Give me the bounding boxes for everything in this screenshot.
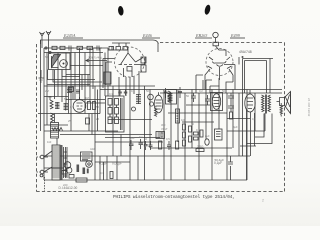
- svg-text:220: 220: [63, 183, 68, 187]
- wire corners below V3: [196, 75, 233, 93]
- tube V1 shield box: [49, 53, 71, 70]
- PSU cluster small boxes: [194, 130, 204, 140]
- antenna lead A2: [48, 44, 50, 53]
- horizontal extra y99: [66, 99, 105, 101]
- coil L2: [51, 113, 54, 122]
- punch hole left: [117, 6, 124, 16]
- wire rail y131 right: [227, 130, 265, 132]
- PSU cluster resistors column: [183, 124, 192, 146]
- tube V3 top cap circle: [213, 32, 218, 37]
- wire mains rail: [44, 167, 64, 169]
- fuse box F1: [62, 171, 67, 175]
- wire vertical v79: [79, 48, 81, 99]
- wire rail y120: [108, 119, 152, 121]
- caption: [113, 195, 253, 200]
- choke L8 winding: [51, 123, 59, 139]
- coupling cap box2: [141, 65, 146, 72]
- antenna A2: [46, 31, 51, 44]
- svg-text:2M: 2M: [45, 89, 49, 93]
- resistor R14: [110, 172, 113, 179]
- tuning capacitor C1 vane: [52, 55, 61, 68]
- wire vertical v178: [177, 90, 179, 143]
- vertical extend v171: [170, 148, 172, 180]
- wire h65: [70, 65, 103, 67]
- svg-text:0,1: 0,1: [109, 92, 113, 96]
- wire vertical v47: [46, 53, 48, 126]
- capacitor C13: [167, 141, 171, 150]
- zigzag resistor R22: [280, 103, 283, 117]
- wire v121b: [120, 135, 122, 157]
- wire V3 right drop: [206, 57, 239, 80]
- switch contact dot2: [49, 51, 51, 53]
- wire v100b: [99, 156, 101, 180]
- wire v92b: [91, 114, 93, 135]
- wire vertical v265: [264, 113, 266, 131]
- tube V1 dot: [63, 63, 65, 65]
- wire vertical v95: [94, 86, 96, 162]
- wire vertical v206: [205, 80, 207, 139]
- label tube E245A: [63, 33, 241, 38]
- svg-text:4µF: 4µF: [233, 125, 238, 129]
- wire rail y156: [44, 155, 250, 157]
- wire vertical v144: [144, 86, 146, 156]
- rectifier V7: [64, 162, 71, 169]
- wire vertical v66: [65, 53, 67, 104]
- tube V4: [73, 100, 86, 113]
- wire vertical v71: [70, 48, 72, 131]
- terminal node: [242, 56, 244, 58]
- RF shield box top: [41, 40, 159, 44]
- wire rail y180: [44, 179, 247, 181]
- resistor R12: [159, 141, 162, 149]
- wire vertical v219: [218, 78, 220, 129]
- component row C2: [66, 46, 74, 51]
- cap cluster D1: [129, 140, 134, 150]
- antenna lead A1: [41, 44, 43, 48]
- wire rail y86: [44, 85, 155, 87]
- coil L7b zigzag: [168, 91, 171, 103]
- label underline E446: [142, 37, 160, 39]
- wire rail y89.5: [100, 89, 282, 91]
- micro labels sprinkle: [45, 55, 256, 187]
- cap C21: [178, 87, 182, 98]
- resistor R6: [93, 102, 96, 110]
- wire v107b: [106, 156, 108, 180]
- wire top row: [44, 47, 108, 49]
- output transformer T2 secondary: [268, 95, 271, 112]
- vertical extend v212: [211, 156, 213, 180]
- coupling caps right of V2: [141, 57, 146, 63]
- choke bottom lead: [56, 138, 58, 145]
- wire vertical v119: [118, 77, 120, 96]
- tube V9 grid: [214, 98, 220, 107]
- wire vertical v100: [99, 48, 101, 114]
- switch contact dot1: [45, 47, 47, 49]
- wire rail y137.5: [105, 137, 160, 139]
- cap pair C19: [124, 90, 128, 96]
- wire v117b: [116, 156, 118, 180]
- wire h122: [182, 121, 214, 123]
- chassis dashed border right: [284, 43, 286, 192]
- vertical extra v68b: [68, 86, 70, 114]
- svg-text:VOLT: VOLT: [161, 127, 168, 131]
- wire vertical v164: [163, 90, 165, 181]
- mains cord dashed: [44, 177, 46, 191]
- annotation wave arrow: [86, 59, 107, 62]
- output transformer T2 core: [266, 95, 267, 114]
- tube V1: [60, 60, 68, 68]
- vertical label column: [161, 123, 168, 139]
- unit box 44A: [81, 152, 93, 161]
- svg-text:300: 300: [161, 123, 166, 127]
- tall resistor R18: [176, 109, 180, 123]
- cap C20: [164, 88, 168, 98]
- wire v82: [81, 75, 83, 91]
- resistor R15: [196, 149, 204, 152]
- tube V3 envelope: [206, 49, 233, 76]
- tuning capacitor C1 frame: [52, 56, 59, 68]
- wire h105: [186, 104, 210, 106]
- svg-text:2µF: 2µF: [130, 136, 135, 140]
- wire vertical v44: [43, 48, 45, 180]
- cap row C17: [205, 95, 210, 105]
- wire rail y113b: [168, 112, 227, 114]
- power transformer T3 primary: [52, 145, 60, 180]
- wire rail y131: [44, 130, 118, 132]
- tube V2 screen: [127, 67, 132, 72]
- tube V3 cap lead box: [213, 42, 219, 46]
- svg-text:0,1: 0,1: [196, 128, 200, 132]
- wire vertical v139: [138, 71, 140, 94]
- power transformer T3 secondary: [64, 147, 68, 178]
- wire vertical v239: [238, 93, 240, 156]
- wire v95 extend: [94, 162, 96, 180]
- horizontal extra y96: [44, 96, 68, 98]
- tube V5 grid: [156, 92, 162, 109]
- punch hole right: [204, 4, 212, 15]
- tube V6 electrodes: [247, 90, 253, 109]
- tube V9: [212, 94, 220, 110]
- antenna A1: [40, 32, 45, 44]
- wire v103b: [103, 162, 105, 180]
- chassis dashed border top: [160, 42, 285, 44]
- svg-text:0,5: 0,5: [131, 89, 135, 93]
- svg-text:70: 70: [191, 122, 194, 126]
- svg-text:2,5Ω: 2,5Ω: [197, 145, 204, 149]
- dark resistor R21: [87, 169, 89, 174]
- cap row C16: [191, 93, 196, 102]
- svg-text:44A: 44A: [90, 147, 95, 151]
- hatch patch H2: [76, 90, 80, 93]
- capacitor C14: [228, 156, 233, 180]
- wire vertical v85: [84, 53, 86, 114]
- vertical extra v97b: [97, 90, 99, 132]
- terminal P3: [40, 174, 43, 177]
- wire bus y48 right: [243, 59, 274, 96]
- horizontal extra y103: [85, 102, 105, 104]
- coil L7 frame: [166, 90, 177, 105]
- tube V3 leads: [205, 65, 235, 90]
- dark resistor R19: [77, 165, 80, 173]
- electrolytic C15: [205, 139, 209, 145]
- dark resistor R20: [83, 168, 86, 175]
- svg-text:0,1: 0,1: [48, 95, 52, 99]
- wire vertical v233: [232, 90, 234, 149]
- tube V4 electrodes: [77, 97, 83, 109]
- wire rail y148: [150, 147, 232, 149]
- tube V2 grid cap components: [108, 43, 130, 50]
- cap pair C18: [118, 90, 122, 96]
- bypass cap C22: [86, 118, 90, 124]
- hatch patch H1: [67, 88, 72, 93]
- grid resistor R7: [104, 72, 111, 84]
- junction box J1: [69, 87, 74, 92]
- speaker lead: [277, 92, 291, 114]
- trimmer circle: [149, 102, 153, 106]
- speaker LS: [280, 92, 291, 114]
- vertical extend v199: [198, 148, 200, 180]
- wire v138b: [137, 156, 139, 180]
- tube V2 anode: [121, 47, 136, 65]
- wire rail y162: [95, 161, 130, 163]
- svg-text:0,2: 0,2: [199, 89, 203, 93]
- tube V5: [154, 95, 163, 113]
- coil L3 hatch: [55, 102, 60, 109]
- svg-text:49A/748: 49A/748: [239, 50, 252, 54]
- wire anode loop: [245, 61, 267, 94]
- ground: [39, 70, 44, 82]
- svg-text:2: 2: [262, 199, 264, 203]
- IF can T1: [106, 96, 125, 132]
- wire v88: [87, 75, 89, 87]
- mains switch S1: [44, 151, 52, 172]
- wire vertical v227: [226, 93, 228, 180]
- capacitor stack C11: [228, 102, 234, 112]
- wire rail y135: [60, 134, 152, 136]
- wire v144 extend: [144, 156, 146, 180]
- svg-text:D.I.44A12-00: D.I.44A12-00: [59, 186, 78, 190]
- mains stub dashed P2: [37, 171, 41, 173]
- cap cluster D2: [139, 139, 144, 149]
- vertical extend v185: [184, 156, 186, 180]
- svg-text:100: 100: [181, 118, 186, 122]
- coil L4 hatch: [64, 103, 69, 111]
- label underline E499: [230, 37, 245, 39]
- box unit B2: [215, 129, 223, 140]
- wire vertical v90: [89, 48, 91, 101]
- wire vertical v171: [170, 93, 172, 148]
- svg-text:50: 50: [186, 94, 189, 98]
- power transformer T3 core: [61, 145, 62, 180]
- zigzag resistor R17: [155, 106, 158, 116]
- svg-text:E446: E446: [142, 33, 153, 38]
- boxed label plate: [76, 178, 87, 182]
- mains terminal P2: [40, 170, 44, 174]
- svg-text:25: 25: [68, 119, 71, 123]
- component row R3: [77, 46, 83, 49]
- mains terminal P1: [40, 155, 44, 159]
- tube V2 grid: [119, 64, 138, 66]
- wire vertical v130: [129, 77, 131, 180]
- wire vertical v126: [125, 77, 127, 96]
- component row R2: [60, 46, 65, 49]
- capacitor stack C10: [228, 93, 234, 102]
- component row R4: [87, 46, 93, 49]
- fuse box F2: [69, 175, 74, 179]
- component row C3: [94, 46, 102, 51]
- component row R1: [52, 46, 57, 49]
- svg-text:0,5: 0,5: [166, 137, 170, 141]
- wire v105: [104, 53, 106, 97]
- resistor R10: [230, 112, 233, 119]
- wire vertical v108: [107, 48, 109, 96]
- svg-text:E499: E499: [230, 33, 241, 38]
- output transformer T2 primary: [262, 95, 265, 112]
- svg-text:0,5: 0,5: [70, 105, 74, 109]
- tube V3 anode: [213, 61, 227, 63]
- shield box left edge: [40, 40, 42, 131]
- AF unit box B3: [156, 132, 165, 139]
- wire vertical v255: [254, 93, 256, 131]
- wire vertical v199: [198, 93, 200, 148]
- svg-text:50: 50: [222, 89, 225, 93]
- svg-text:E245A: E245A: [63, 33, 76, 38]
- svg-text:50: 50: [45, 55, 48, 59]
- coil L1: [50, 96, 53, 109]
- svg-text:50: 50: [146, 89, 149, 93]
- svg-text:8µF: 8µF: [205, 134, 210, 138]
- wire rail y93: [160, 92, 282, 94]
- coil L7: [168, 93, 173, 102]
- label underline EB263: [195, 37, 212, 39]
- wire v89b: [88, 114, 90, 132]
- wire corners left of V2: [103, 59, 115, 89]
- tube V6: [245, 94, 255, 112]
- svg-text:0,1: 0,1: [252, 117, 256, 121]
- wire right drops: [240, 95, 272, 180]
- coil L6: [136, 94, 141, 104]
- wire vertical v192: [191, 90, 193, 149]
- wire vertical v58: [57, 53, 59, 97]
- tube V3 grid lead: [216, 38, 227, 56]
- wire vertical v54: [54, 70, 56, 99]
- svg-text:0,1: 0,1: [139, 135, 143, 139]
- svg-text:50: 50: [64, 97, 67, 101]
- capacitor group C12: [149, 141, 153, 150]
- svg-text:24 448 19042: 24 448 19042: [307, 98, 311, 117]
- wire vertical v185: [184, 93, 186, 156]
- tube V9 shield: [211, 93, 223, 111]
- chassis dashed border bottom: [37, 191, 285, 193]
- circle gadget S2: [86, 161, 93, 168]
- wire vertical v150: [149, 90, 151, 149]
- wire vertical v75: [74, 53, 76, 100]
- svg-text:50,4µF: 50,4µF: [215, 158, 225, 162]
- svg-text:0,1: 0,1: [163, 88, 167, 92]
- chassis dashed border left: [36, 44, 38, 192]
- wire corners below V1: [48, 70, 103, 85]
- wire rail y125: [44, 124, 68, 126]
- trimmer T4: [132, 107, 136, 111]
- svg-text:50: 50: [144, 137, 147, 141]
- tube V3 diode plates: [208, 57, 232, 69]
- resistor R13: [176, 141, 179, 149]
- wire vertical v62: [61, 70, 63, 103]
- wire rail y119 right: [227, 118, 250, 120]
- svg-text:110: 110: [47, 140, 52, 144]
- wire rail y142: [95, 141, 163, 143]
- resistor R5: [88, 102, 91, 110]
- wire vertical v158: [157, 43, 159, 52]
- choke top lead: [54, 114, 56, 123]
- tube V2 cathode: [124, 57, 146, 77]
- tube V3 cathode: [217, 65, 224, 81]
- socket circle: [148, 94, 154, 100]
- wire rail y113.5: [38, 113, 100, 115]
- vertical extra v73b: [72, 86, 74, 99]
- tube V2 envelope: [115, 47, 145, 77]
- cap cluster D3: [144, 141, 148, 150]
- coil L5 horizontal: [52, 128, 63, 131]
- wire v93: [92, 48, 94, 89]
- wire vertical v113: [112, 86, 114, 156]
- wire h74: [66, 74, 90, 76]
- svg-text:EB263: EB263: [195, 33, 207, 38]
- wire vertical v134: [133, 77, 135, 94]
- rectifier V8: [66, 167, 72, 173]
- wire vertical v247: [246, 90, 248, 181]
- wire vertical v212: [211, 90, 213, 157]
- wire second row: [44, 52, 103, 54]
- gadget hook: [88, 163, 91, 166]
- label underline E245A: [63, 37, 83, 39]
- mains stub dashed P1: [37, 156, 41, 158]
